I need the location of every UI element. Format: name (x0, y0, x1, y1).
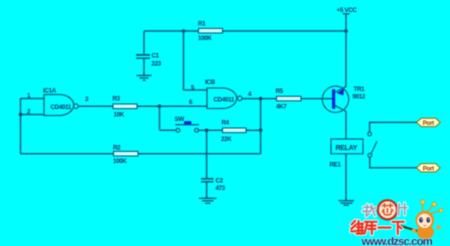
resistor R2 (113, 145, 138, 165)
wire pin5 vertical (183, 31, 185, 90)
svg-text:www.dzsc.com: www.dzsc.com (361, 236, 433, 246)
capacitor C2 (201, 177, 226, 192)
junction dot R4 right (259, 129, 263, 133)
logo mascot (396, 200, 443, 239)
svg-text:RE1: RE1 (330, 162, 342, 169)
svg-text:+5 VCC: +5 VCC (337, 7, 358, 14)
wire R5 to base (301, 98, 332, 100)
junction dot pin2 (19, 113, 23, 117)
op-amp gate ICB (205, 79, 242, 108)
relay coil RELAY (331, 139, 363, 154)
wire IC1A inputs vertical (20, 99, 22, 154)
svg-text:R2: R2 (113, 145, 121, 152)
wire relay to ground (345, 154, 347, 201)
svg-text:4K7: 4K7 (276, 104, 287, 111)
svg-text:R5: R5 (276, 88, 284, 95)
resistor R3 (113, 96, 138, 119)
wire R4 right lead (246, 129, 261, 131)
wire node B down to switch (159, 106, 161, 130)
wire to SW left contact (160, 129, 177, 131)
svg-text:10K: 10K (114, 111, 125, 118)
svg-text:9012: 9012 (353, 93, 366, 100)
wire ICB output (242, 98, 277, 100)
junction dot node C (205, 129, 209, 133)
junction dot output node (259, 97, 263, 101)
junction dot node B (158, 104, 162, 108)
svg-text:C2: C2 (216, 177, 224, 184)
switch SW (175, 116, 200, 132)
relay contact arm (371, 141, 377, 154)
svg-text:100K: 100K (198, 35, 212, 42)
svg-text:Port: Port (423, 165, 434, 172)
wire relay contact upper (370, 122, 417, 132)
wire VCC vertical (345, 14, 347, 87)
svg-text:SW: SW (175, 116, 185, 123)
ground below C1 (137, 76, 152, 81)
junction dot top pin5 (182, 29, 186, 33)
wire pin1 (21, 98, 45, 100)
logo word 片 (vector strokes) (399, 203, 407, 215)
svg-text:C1: C1 (152, 53, 160, 60)
power +5 VCC (337, 7, 358, 14)
wire feedback bottom left (21, 153, 114, 155)
wire relay contact lower (370, 157, 417, 168)
svg-text:223: 223 (152, 61, 162, 68)
logo chip seal circle with 芯 (378, 200, 397, 219)
resistor R5 (276, 88, 302, 110)
svg-text:22K: 22K (221, 136, 232, 143)
svg-text:100K: 100K (113, 158, 127, 165)
relay contact lower (368, 153, 372, 157)
logo word 我 (vector strokes) (363, 205, 376, 217)
wire feedback bottom right (138, 153, 261, 155)
transistor Q TR1 (322, 86, 366, 113)
wire output node vertical (260, 99, 262, 154)
capacitor C1 (136, 53, 162, 68)
logo text 维库一下 (vector strokes) (351, 221, 404, 234)
wire pin2 (21, 114, 45, 116)
wire collector down to relay (345, 111, 347, 139)
port symbol upper (417, 118, 441, 127)
port symbol lower (417, 164, 441, 173)
wire SW right contact to node C (198, 129, 222, 131)
wire top rail (144, 30, 346, 32)
resistor R4 (221, 120, 246, 143)
svg-text:R1: R1 (198, 21, 206, 28)
ground below C2 (199, 198, 217, 203)
svg-text:473: 473 (216, 185, 226, 192)
wire R3 to pin6 (137, 105, 207, 107)
resistor R1 (198, 21, 223, 42)
wire IC1A output to R3 (78, 105, 113, 107)
wire C1 branch (143, 31, 145, 55)
relay contact upper (368, 132, 372, 136)
svg-text:IC1A: IC1A (43, 88, 57, 95)
op-amp gate IC1A (43, 88, 78, 116)
wire C2 to ground (206, 182, 208, 199)
wire node C down to C2 (206, 130, 208, 178)
svg-text:ICB: ICB (205, 79, 216, 86)
svg-text:CD4011: CD4011 (214, 97, 235, 104)
svg-text:Port: Port (423, 120, 434, 127)
svg-text:R3: R3 (113, 96, 121, 103)
svg-text:CD4011: CD4011 (51, 104, 72, 111)
wire pin5 horizontal (184, 89, 208, 91)
svg-text:R4: R4 (222, 120, 230, 127)
svg-text:RELAY: RELAY (336, 145, 358, 152)
ground below relay (339, 201, 355, 206)
junction dot top VCC (344, 29, 348, 33)
svg-text:TR1: TR1 (354, 86, 366, 93)
wire C1 to ground (143, 58, 145, 76)
